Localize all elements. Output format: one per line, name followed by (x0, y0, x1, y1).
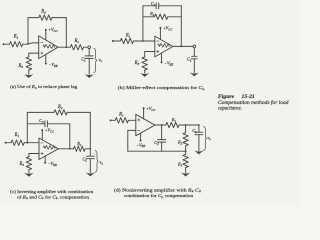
capacitor C2 (b) (155, 3, 157, 9)
svg-text:combination for CL compensatio: combination for CL compensation (124, 193, 194, 199)
wire feedback right vertical (b) (180, 6, 182, 47)
wire node to CL (b) (193, 48, 195, 56)
wire Rx to output node (d) (179, 124, 199, 126)
brace vo (c) (95, 150, 98, 172)
capacitor CL (a) (85, 55, 93, 57)
ground below CL (c) (86, 173, 95, 177)
ground below CL (b) (190, 73, 199, 77)
node: -VEE terminal (a) (45, 63, 47, 65)
wire R3 to ground (b) (144, 70, 146, 73)
node: output-feedback junction (b) (180, 46, 182, 48)
node: output-C2 junction (c) (69, 148, 71, 150)
resistor R3 (d) (183, 154, 188, 167)
wire C2 branch upper (d) (161, 125, 163, 139)
wire R1 to inverting input (c) (24, 142, 39, 144)
resistor R2 (d) (183, 133, 188, 146)
svg-text:R1: R1 (118, 113, 124, 118)
svg-text:capacitance.: capacitance. (218, 105, 242, 111)
node: input terminal (b) (112, 40, 114, 42)
node: output terminal (a) (88, 46, 91, 49)
ground below R3 (c) (24, 173, 33, 177)
svg-text:Rx: Rx (74, 39, 80, 44)
resistor R1 (d) (115, 118, 128, 123)
wire inverting input feedback leg (d) (128, 130, 136, 151)
wire R2 row left segment (c) (27, 111, 54, 113)
resistor Rx (a) (70, 45, 83, 50)
resistor R2 (a) feedback (39, 15, 52, 20)
wire C2 top left segment (b) (143, 5, 156, 7)
svg-text:R1: R1 (125, 33, 131, 38)
wire feedback right vertical (a) (65, 18, 67, 48)
wire -VEE stem (b) (161, 53, 163, 62)
svg-text:R1: R1 (13, 35, 19, 40)
wire R3 to ground (a) (28, 70, 30, 74)
wire CL to ground (a) (88, 58, 90, 74)
capacitor C2 (d) (158, 139, 166, 141)
wire C2 row right segment (c) (47, 123, 69, 125)
capacitor CL (d) (195, 131, 203, 133)
resistor Rx (c) (74, 146, 86, 151)
svg-text:of Rx and C2 for CL compensati: of Rx and C2 for CL compensation (17, 194, 90, 200)
resistor R3 (b) (142, 57, 147, 70)
wire +VCC stem (a) (45, 30, 47, 40)
op-amp A1 (c) (39, 138, 58, 160)
op-amp A1 (d) (136, 114, 155, 136)
svg-text:(c) Inverting amplifier with c: (c) Inverting amplifier with combination (10, 189, 94, 194)
wire R2 branch upper (d) (185, 125, 187, 133)
wire input to R1 (c) (7, 142, 12, 144)
ground below R3 (b) (140, 73, 149, 77)
ground below R3 (a) (24, 74, 33, 78)
node: -VEE terminal (d) (140, 140, 142, 142)
node: input terminal (a) (3, 43, 5, 45)
wire Rx to output node (a) (84, 46, 88, 48)
wire R1 to op-amp inverting input (b) (134, 40, 155, 42)
wire feedback left vertical (a) (27, 18, 29, 44)
node: feedback junction (d) (185, 150, 187, 152)
node: +VCC terminal (c) (41, 129, 43, 131)
wire -VEE stem (d) (140, 133, 142, 140)
op-amp A1 (a) (39, 36, 58, 59)
wire R3 to ground (c) (28, 170, 30, 173)
wire Rx to output node (c) (85, 148, 90, 150)
node: input terminal (c) (5, 142, 7, 144)
resistor R1 (c) (11, 140, 24, 145)
wire C2 branch lower (d) (161, 142, 163, 151)
resistor R3 (a) (26, 57, 31, 70)
resistor R2 (c) (54, 110, 67, 115)
wire R2 row right segment (c) (67, 111, 90, 113)
brace vo (d) (204, 126, 207, 150)
wire input to R1 (d) (112, 119, 116, 121)
wire noninverting input to R3 (b) (145, 52, 155, 57)
wire node to CL (d) (198, 125, 200, 132)
resistor R1 (b) (120, 38, 133, 43)
ground below CL (a) (85, 74, 94, 78)
wire feedback top left segment (a) (28, 17, 39, 19)
node: inverting input junction (b) (142, 40, 144, 42)
wire R2 row right segment (b) (168, 16, 182, 18)
wire noninverting input to R3 (a) (29, 53, 39, 57)
resistor R3 (c) (26, 157, 31, 170)
wire C2 top right segment (b) (159, 5, 182, 7)
wire rail to R3 (d) (185, 151, 187, 154)
wire node to CL (a) (88, 49, 90, 56)
resistor R1 (a) (10, 42, 23, 47)
wire C2 right vertical (c) (69, 124, 71, 149)
node: output terminal (b) (193, 45, 196, 48)
node: output-C2 junction (d) (161, 124, 163, 126)
wire -VEE stem (a) (45, 55, 47, 64)
node: CL branch corner (d) (198, 124, 200, 126)
resistor Rx (d) (166, 122, 179, 127)
wire input to R1 (a) (5, 43, 10, 45)
node: output node junction (c) (89, 148, 91, 150)
svg-text:R2: R2 (40, 10, 46, 15)
svg-text:(b) Miller-effect compensation: (b) Miller-effect compensation for CL (118, 85, 205, 91)
wire junction to op-amp inverting input (a) (28, 43, 39, 44)
svg-text:R3: R3 (134, 61, 140, 66)
wire +VCC stem (c) (41, 131, 43, 140)
node: -VEE terminal (c) (44, 162, 46, 164)
ground below R3 (d) (181, 173, 190, 177)
resistor R2 (b) (155, 14, 168, 19)
wire op-amp output (d) (155, 124, 166, 126)
svg-text:(a) Use of Rx to reduce phase: (a) Use of Rx to reduce phase lag (10, 84, 78, 90)
wire input to R1 (b) (114, 40, 121, 42)
wire feedback left vertical (b) (142, 6, 144, 41)
node: input terminal (d) (110, 119, 112, 121)
capacitor CL (c) (86, 155, 94, 157)
wire R2 row left segment (b) (143, 16, 155, 18)
brace vo (a) (94, 48, 97, 72)
node: -VEE terminal (b) (161, 61, 163, 63)
wire op-amp output (c) (58, 148, 73, 150)
node: +VCC terminal (b) (159, 27, 161, 29)
wire +VCC stem (d) (143, 109, 145, 119)
wire op-amp output (a) (58, 46, 70, 48)
node: output node junction (d) (185, 124, 187, 126)
wire C2 row left segment (c) (27, 123, 45, 125)
ground below CL (d) (194, 151, 203, 155)
wire CL to ground (c) (89, 159, 91, 173)
wire R1 to inverting input junction (a) (23, 43, 28, 45)
wire -VEE stem (c) (44, 156, 46, 162)
wire bottom feedback rail (d) (128, 150, 186, 152)
op-amp A1 (b) (155, 36, 173, 57)
capacitor C2 (c) (44, 121, 46, 127)
wire CL to ground (b) (193, 59, 195, 73)
wire CL to ground (d) (198, 135, 200, 151)
svg-text:R2: R2 (57, 105, 63, 110)
node: +VCC terminal (d) (143, 107, 145, 109)
wire R2 right vertical (c) (89, 112, 91, 148)
wire +VCC stem (b) (159, 28, 161, 39)
wire feedback left vertical (c) (26, 112, 28, 142)
node: inverting input junction (c) (26, 142, 28, 144)
wire R3 to ground (d) (185, 168, 187, 173)
wire R2 to bottom rail (d) (185, 146, 187, 151)
node: +VCC terminal (a) (45, 29, 47, 31)
svg-text:R1: R1 (14, 133, 20, 138)
wire noninverting input to R3 (c) (29, 154, 39, 157)
wire R1 to noninverting input (d) (128, 119, 135, 121)
node: inverting input junction (a) (27, 43, 29, 45)
wire feedback top right segment (a) (52, 17, 66, 19)
svg-text:R3: R3 (19, 162, 25, 167)
svg-text:R3: R3 (18, 64, 24, 69)
wire node to CL (c) (89, 149, 91, 156)
capacitor CL (b) (192, 55, 198, 57)
wire op-amp output (b) (173, 45, 193, 47)
node: output-feedback junction (a) (65, 46, 67, 48)
